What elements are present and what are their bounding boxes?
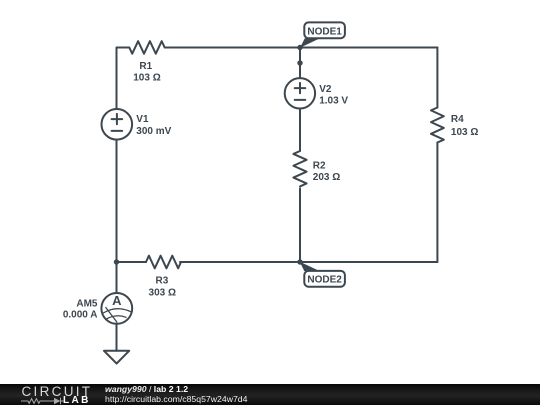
- resistor R4: [431, 108, 444, 143]
- svg-text:R4: R4: [451, 114, 464, 125]
- node label NODE2: [304, 271, 345, 287]
- svg-text:203 Ω: 203 Ω: [313, 172, 340, 183]
- footer credit line: [105, 385, 188, 395]
- node label NODE1: [304, 22, 345, 38]
- wire right side lower: [436, 143, 438, 263]
- voltage source V2: [285, 78, 315, 108]
- svg-text:R3: R3: [156, 276, 169, 287]
- svg-text:A: A: [112, 293, 122, 308]
- logo circuit glyph: [21, 397, 64, 405]
- voltage source V1: [102, 109, 133, 140]
- svg-text:R1: R1: [139, 61, 152, 72]
- wire V1 bottom to junction: [116, 140, 118, 262]
- svg-text:103 Ω: 103 Ω: [133, 73, 160, 84]
- wire node1 to V2: [299, 48, 301, 79]
- wire V2 to R2: [299, 109, 301, 152]
- wire bottom right to R3: [180, 261, 437, 263]
- wire top R1 to top-right corner: [165, 47, 438, 49]
- svg-text:NODE1: NODE1: [307, 26, 342, 37]
- svg-text:NODE2: NODE2: [307, 275, 342, 286]
- terminal dot V2 top: [297, 60, 302, 65]
- wire ammeter to ground: [116, 324, 118, 351]
- junction node at NODE2: [297, 259, 302, 264]
- ammeter AM5: [101, 293, 132, 324]
- wire junction to ammeter: [116, 262, 118, 293]
- CircuitLab logo text: [22, 384, 93, 399]
- ground: [104, 351, 129, 364]
- wire R2 to node2: [299, 189, 301, 263]
- junction node at NODE1: [297, 45, 302, 50]
- wire right side upper: [436, 48, 438, 108]
- wire top-left corner to V1 top: [117, 48, 130, 110]
- NODE1 flag pointer: [300, 38, 320, 48]
- svg-text:0.000 A: 0.000 A: [63, 309, 98, 320]
- junction bottom-left: [114, 259, 119, 264]
- resistor R2: [293, 151, 306, 186]
- svg-text:103 Ω: 103 Ω: [451, 127, 478, 138]
- svg-text:AM5: AM5: [76, 299, 98, 310]
- footer bar: [0, 384, 540, 405]
- NODE2 flag pointer: [300, 262, 320, 271]
- svg-text:V1: V1: [136, 114, 149, 125]
- resistor R1: [129, 41, 164, 54]
- svg-text:V2: V2: [319, 84, 332, 95]
- wire R3 to bottom-left junction: [117, 261, 147, 263]
- svg-text:303 Ω: 303 Ω: [149, 288, 176, 299]
- svg-text:R2: R2: [313, 161, 326, 172]
- resistor R3: [146, 256, 181, 269]
- svg-text:300 mV: 300 mV: [136, 126, 171, 137]
- footer url line: [105, 395, 247, 405]
- svg-text:1.03 V: 1.03 V: [319, 96, 348, 107]
